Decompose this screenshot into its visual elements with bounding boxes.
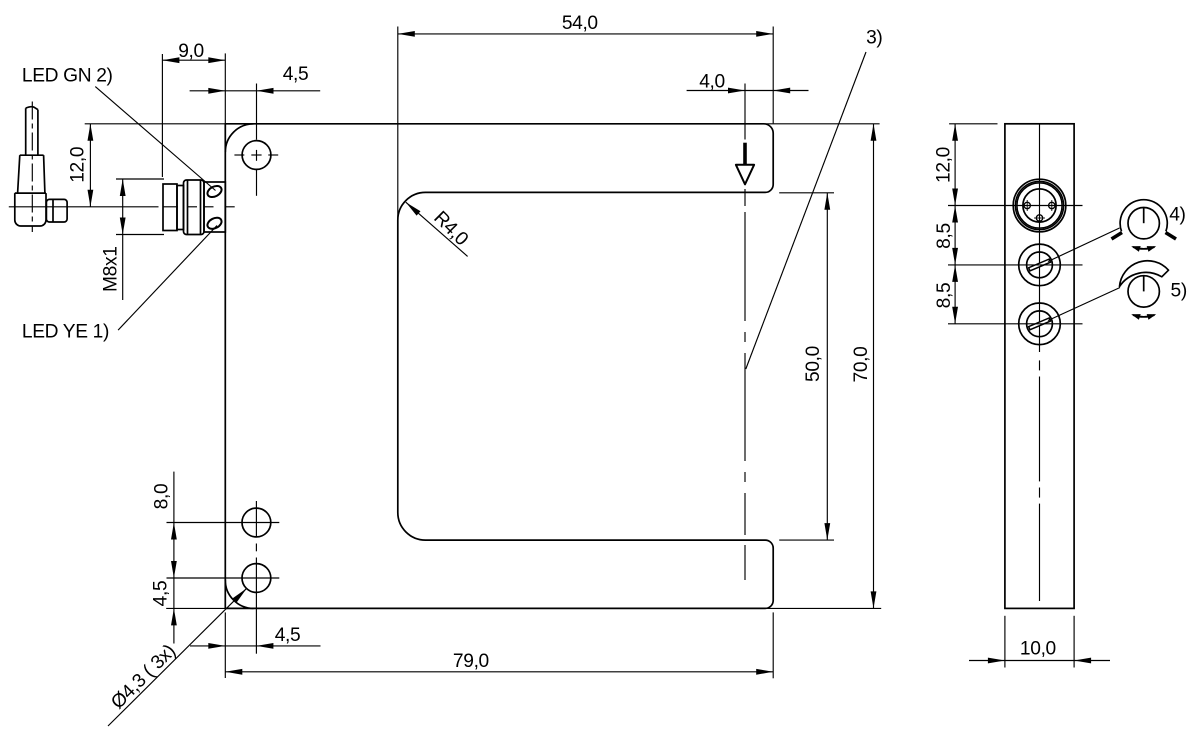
- svg-text:4,5: 4,5: [275, 625, 301, 646]
- dimension 4,5 top (hole offset): [190, 90, 321, 92]
- front view: fork sensor body outline: [225, 124, 773, 609]
- dimension 10,0 bottom: [1004, 616, 1006, 668]
- leader line to symbol 5: [1048, 288, 1120, 321]
- dimension 8,5 lower: [954, 265, 956, 324]
- side view vertical edge line: [1039, 124, 1041, 352]
- cable plug body: [15, 193, 46, 226]
- svg-text:50,0: 50,0: [803, 346, 824, 382]
- LED YE ellipse: [206, 216, 224, 232]
- front face fillet arc bottom-left: [225, 580, 253, 609]
- dimension 50,0 right of slot: [779, 192, 834, 194]
- dimension 79,0 bottom: [225, 671, 773, 673]
- pot1 horizontal centerline / ext: [948, 264, 1083, 266]
- M8 connector neck ring: [177, 186, 184, 230]
- dimension 4,0 (beam offset): [687, 90, 809, 92]
- leader line LED YE: [118, 226, 217, 331]
- svg-text:79,0: 79,0: [453, 651, 489, 672]
- mounting hole top-left: [242, 141, 271, 170]
- svg-text:12,0: 12,0: [67, 147, 88, 183]
- svg-text:10,0: 10,0: [1020, 639, 1056, 660]
- connector horizontal centerline / ext: [948, 205, 1083, 207]
- cable plug vertical centerline: [31, 102, 33, 233]
- beam direction symbol (thick shaft + hollow arrow): [743, 143, 747, 165]
- bottom hole upper centerline / ext line for 8.0 dim: [167, 522, 280, 524]
- dimension 8,5 upper: [954, 206, 956, 265]
- connector pins: [1024, 202, 1030, 208]
- svg-text:LED GN 2): LED GN 2): [22, 66, 113, 87]
- potentiometer 2 (side view): [1019, 303, 1061, 345]
- svg-text:LED YE 1): LED YE 1): [22, 322, 109, 343]
- symbol 4: potentiometer with rotation arc: [1128, 208, 1159, 239]
- bottom edge extension line left: [166, 607, 225, 609]
- symbol 4: left-right curved arrow: [1133, 247, 1155, 249]
- leader line to symbol 4: [1048, 228, 1120, 262]
- svg-text:M8x1: M8x1: [100, 246, 121, 292]
- symbol 5: potentiometer with swoosh: [1128, 276, 1159, 307]
- bottom hole lower centerline / ext line: [167, 577, 280, 579]
- optical axis centerline: [744, 84, 746, 140]
- cable plug boot: [18, 155, 45, 193]
- svg-text:8,5: 8,5: [934, 283, 955, 309]
- mounting hole bottom upper: [242, 508, 271, 537]
- side view vertical centerline lower: [1039, 360, 1041, 370]
- M8 connector face circles (side view): [1013, 179, 1066, 232]
- svg-text:8,0: 8,0: [152, 484, 173, 510]
- connector horizontal centerline: [9, 206, 159, 208]
- connector center dash: [1034, 205, 1046, 207]
- dimension 9,0 top-left: [162, 59, 225, 61]
- bottom holes vertical centerline: [255, 501, 257, 537]
- svg-text:8,5: 8,5: [934, 223, 955, 249]
- dimension 12,0 left: [85, 123, 226, 125]
- pot2 horizontal centerline / ext: [948, 323, 1083, 325]
- dimension M8x1: [116, 178, 164, 180]
- svg-text:12,0: 12,0: [934, 147, 955, 183]
- dimension 70,0 right: [764, 123, 880, 125]
- dimension 4,5 vertical (lower hole to bottom): [173, 578, 175, 644]
- cable plug side port: [46, 199, 67, 222]
- svg-text:4,0: 4,0: [699, 72, 725, 93]
- leader line LED GN: [95, 87, 215, 191]
- hole top-left centerlines: [234, 154, 244, 156]
- dimension 8,0 (hole spacing): [173, 472, 175, 578]
- M8 connector thread: [184, 180, 205, 235]
- svg-text:3): 3): [866, 27, 882, 48]
- cable plug: cable lines: [25, 108, 27, 155]
- side view body outline: [1005, 124, 1074, 609]
- svg-text:70,0: 70,0: [851, 347, 872, 383]
- LED GN ellipse: [206, 184, 224, 200]
- svg-text:54,0: 54,0: [562, 13, 598, 34]
- svg-text:4,5: 4,5: [283, 64, 309, 85]
- dimension 4,5 bottom horizontal: [190, 645, 321, 647]
- label diameter 4,3 (3x) with leader: [108, 588, 247, 726]
- symbol 5: left-right curved arrow: [1133, 315, 1155, 317]
- label R4,0 with leader arrow: [406, 202, 468, 256]
- potentiometer 1 (side view): [1019, 244, 1061, 286]
- front face fillet arc top-left: [225, 124, 253, 152]
- svg-text:9,0: 9,0: [178, 41, 204, 62]
- M8 connector cap: [163, 184, 177, 231]
- mounting hole bottom lower: [242, 564, 271, 593]
- dimension 54,0 top: [398, 33, 773, 35]
- svg-text:4,5: 4,5: [151, 581, 172, 607]
- dimension 12,0 side view: [949, 123, 997, 125]
- M8 connector flange: [204, 182, 225, 232]
- svg-text:5): 5): [1171, 280, 1187, 301]
- svg-text:4): 4): [1169, 204, 1185, 225]
